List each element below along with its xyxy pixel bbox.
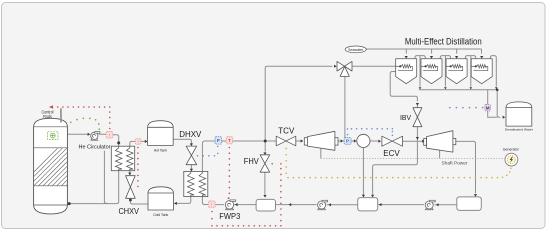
three-way valve bbox=[334, 61, 352, 76]
svg-text:TCV: TCV bbox=[278, 127, 295, 136]
He circulator bbox=[79, 132, 111, 151]
svg-text:CHXV: CHXV bbox=[118, 207, 139, 216]
signal blue ECV bbox=[347, 128, 394, 136]
flow meter M bbox=[485, 105, 491, 111]
svg-text:T: T bbox=[228, 138, 231, 143]
junction node steam branch bbox=[264, 140, 267, 143]
indicator TI1 bbox=[106, 132, 113, 139]
svg-text:FWP3: FWP3 bbox=[219, 212, 240, 221]
svg-text:Shaft Power: Shaft Power bbox=[442, 161, 468, 166]
wire arrow separator inlet bbox=[354, 139, 357, 142]
indicator TI4 bbox=[226, 137, 232, 144]
valve IBV bbox=[400, 103, 422, 140]
control rods bbox=[42, 108, 61, 122]
valve DHXV bbox=[179, 130, 202, 165]
moisture separator bbox=[357, 134, 370, 147]
signal red reactor control bbox=[49, 105, 111, 129]
MED effect 4 bbox=[471, 56, 492, 84]
wire arrow reactor outlet bbox=[88, 133, 91, 136]
svg-text:↑: ↑ bbox=[211, 202, 213, 207]
signal red FWP3 control bbox=[228, 147, 230, 199]
svg-text:He Circulator: He Circulator bbox=[79, 144, 111, 150]
signal red FHV control bbox=[211, 163, 282, 227]
seawater source bbox=[345, 46, 366, 53]
svg-text:↑: ↑ bbox=[137, 139, 139, 144]
svg-text:IBV: IBV bbox=[400, 115, 411, 122]
valve CHXV bbox=[118, 173, 139, 217]
svg-text:Hot Tank: Hot Tank bbox=[154, 148, 167, 152]
valve ECV bbox=[382, 136, 403, 158]
signal yellow TCV generator bbox=[285, 148, 511, 179]
svg-text:↑: ↑ bbox=[108, 132, 110, 137]
feedwater heater 3 bbox=[457, 194, 482, 210]
indicator TI2 bbox=[136, 139, 141, 145]
heat exchanger DHX bbox=[184, 169, 208, 197]
condensate pump 1 bbox=[317, 200, 331, 210]
svg-text:Rods: Rods bbox=[43, 114, 52, 119]
MED effect 3 bbox=[446, 56, 467, 84]
svg-text:P: P bbox=[346, 138, 349, 143]
effect drain arrows bbox=[419, 87, 499, 91]
reactor core zone bbox=[48, 132, 58, 140]
MED effect 2 bbox=[421, 56, 442, 84]
wire arrow HPT exhaust bbox=[341, 139, 344, 142]
svg-text:Seawater: Seawater bbox=[348, 48, 364, 52]
MED title bbox=[405, 37, 482, 47]
signal purple flow meter bbox=[449, 107, 484, 109]
turbine HPT bbox=[301, 131, 338, 150]
feedwater heater 2 bbox=[358, 195, 382, 211]
svg-text:DHXV: DHXV bbox=[179, 130, 202, 139]
signal blue DHXV bbox=[197, 146, 219, 157]
feedwater heater 1 bbox=[256, 199, 291, 211]
valve TCV bbox=[276, 127, 296, 146]
svg-text:FHV: FHV bbox=[244, 157, 259, 166]
pump FWP3 bbox=[219, 200, 240, 221]
generator bbox=[503, 147, 520, 166]
svg-text:Cold Tank: Cold Tank bbox=[153, 213, 168, 217]
indicator TI3 bbox=[208, 201, 215, 208]
cold tank bbox=[148, 187, 177, 217]
svg-text:ECV: ECV bbox=[383, 149, 400, 158]
reactor vessel bbox=[20, 118, 145, 214]
svg-text:P: P bbox=[217, 138, 220, 143]
valve FHV bbox=[244, 152, 270, 197]
svg-text:Generator: Generator bbox=[503, 147, 520, 151]
signal green circulator bbox=[61, 118, 101, 137]
hot tank bbox=[148, 121, 174, 153]
turbine LPT bbox=[422, 131, 456, 152]
junction node IHX inlet bbox=[117, 141, 120, 144]
svg-text:M: M bbox=[486, 105, 490, 110]
svg-text:Multi-Effect Distillation: Multi-Effect Distillation bbox=[405, 37, 482, 47]
shaft power label bbox=[442, 161, 468, 166]
wire arrow ECV inlet bbox=[378, 140, 381, 143]
signal red CHXV control bbox=[137, 147, 139, 188]
shaft power line bbox=[321, 157, 505, 159]
indicator PI1 bbox=[215, 137, 222, 144]
process piping wires bbox=[67, 49, 500, 205]
desalinated water tank bbox=[503, 102, 533, 132]
wire arrow hot tank inlet bbox=[145, 140, 148, 143]
condensate pump 2 bbox=[425, 200, 439, 210]
svg-text:Desalinated Water: Desalinated Water bbox=[505, 128, 533, 132]
indicator PI2 bbox=[344, 137, 351, 144]
heat exchanger IHX bbox=[111, 146, 134, 171]
MED effect 1 bbox=[396, 56, 417, 84]
